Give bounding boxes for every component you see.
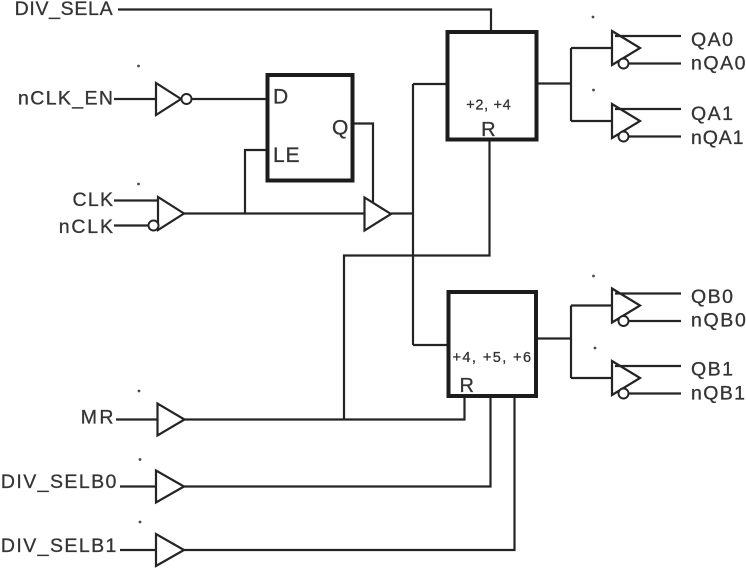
output buffer U8 (QB1) — [612, 361, 640, 395]
divider B block — [449, 292, 537, 396]
receiver nCLK input bubble — [149, 221, 159, 231]
wire main clock vertical — [412, 84, 414, 345]
wire divider A reset net — [344, 142, 490, 420]
svg-text:QB0: QB0 — [691, 286, 733, 308]
wire to QA1 buffer — [571, 120, 612, 122]
output buffer U5 (QA0) — [612, 31, 640, 65]
wire nQB1 output — [629, 392, 682, 394]
wire latch Q to clock buffer — [355, 124, 374, 204]
svg-text:QA0: QA0 — [691, 29, 733, 51]
divider A block — [448, 32, 537, 140]
stray scan dots — [137, 16, 596, 524]
U6 complement bubble — [619, 132, 629, 142]
wire inverter to latch D — [192, 98, 266, 100]
svg-text:R: R — [460, 375, 474, 397]
input buffer U11 (DIV_SELB1) — [156, 534, 184, 566]
svg-text:Q: Q — [332, 116, 348, 139]
inverter U1 (nCLK_EN) — [156, 83, 181, 115]
svg-text:DIV_SELA: DIV_SELA — [15, 0, 113, 20]
wire nCLK_EN input — [114, 98, 156, 100]
wire DIV_SELB0 input — [120, 485, 156, 487]
wire QA1 output — [615, 108, 681, 110]
wire clock buffer output — [391, 212, 413, 214]
wire MR input — [116, 418, 158, 420]
wire divider B output — [538, 337, 571, 339]
wire LE to clock rail — [245, 150, 266, 214]
wire MR to divider B reset — [185, 398, 465, 420]
wire to QA0 buffer — [571, 47, 612, 49]
clock receiver U3 — [158, 197, 184, 230]
svg-text:nQA1: nQA1 — [691, 127, 744, 149]
wire clock rail receiver to buffer — [184, 212, 365, 214]
wire QB1 output — [615, 365, 681, 367]
wire divider A output — [539, 82, 572, 84]
wire nCLK input — [114, 224, 149, 226]
latch U2 box — [268, 75, 353, 181]
wire DIV_SELB0 to divider B — [184, 398, 491, 487]
svg-text:CLK: CLK — [73, 189, 114, 211]
wire to QB0 buffer — [571, 304, 612, 306]
U5 complement bubble — [619, 59, 629, 69]
svg-text:QA1: QA1 — [691, 103, 733, 125]
svg-text:D: D — [273, 86, 288, 109]
svg-text:DIV_SELB1: DIV_SELB1 — [1, 535, 116, 557]
wire DIV_SELA to divider A top — [118, 10, 491, 32]
svg-text:nQA0: nQA0 — [691, 53, 746, 75]
wire QA0 output — [615, 35, 681, 37]
svg-text:nQB1: nQB1 — [691, 383, 745, 405]
wire DIV_SELB1 input — [120, 549, 156, 551]
svg-text:nCLK_EN: nCLK_EN — [18, 87, 113, 109]
output buffer U6 (QA1) — [612, 104, 640, 138]
svg-text:DIV_SELB0: DIV_SELB0 — [1, 471, 117, 493]
wire QB0 output — [615, 292, 681, 294]
input buffer U10 (DIV_SELB0) — [156, 471, 184, 503]
output buffer U7 (QB0) — [612, 289, 640, 323]
svg-text:QB1: QB1 — [691, 359, 733, 381]
wire DIV_SELB1 to divider B — [184, 398, 515, 550]
wire to QB1 buffer — [571, 377, 612, 379]
svg-text:+4, +5, +6: +4, +5, +6 — [453, 350, 532, 366]
U7 complement bubble — [619, 316, 629, 326]
svg-text:R: R — [481, 119, 495, 141]
clock buffer U4 — [365, 198, 392, 231]
inverter U1 output bubble — [182, 94, 192, 104]
wire QA branch vertical — [570, 48, 572, 121]
wire QB branch vertical — [570, 306, 572, 379]
wire clock into divider A — [413, 83, 446, 85]
wire CLK input — [114, 199, 158, 201]
svg-text:nQB0: nQB0 — [691, 310, 746, 332]
wire nQA1 output — [629, 135, 682, 137]
wire clock into divider B — [413, 344, 447, 346]
input buffer U9 (MR) — [158, 404, 185, 436]
svg-text:+2, +4: +2, +4 — [466, 98, 511, 114]
svg-text:LE: LE — [273, 144, 300, 167]
wire nQA0 output — [629, 62, 682, 64]
U8 complement bubble — [619, 389, 629, 399]
wire nQB0 output — [629, 320, 682, 322]
